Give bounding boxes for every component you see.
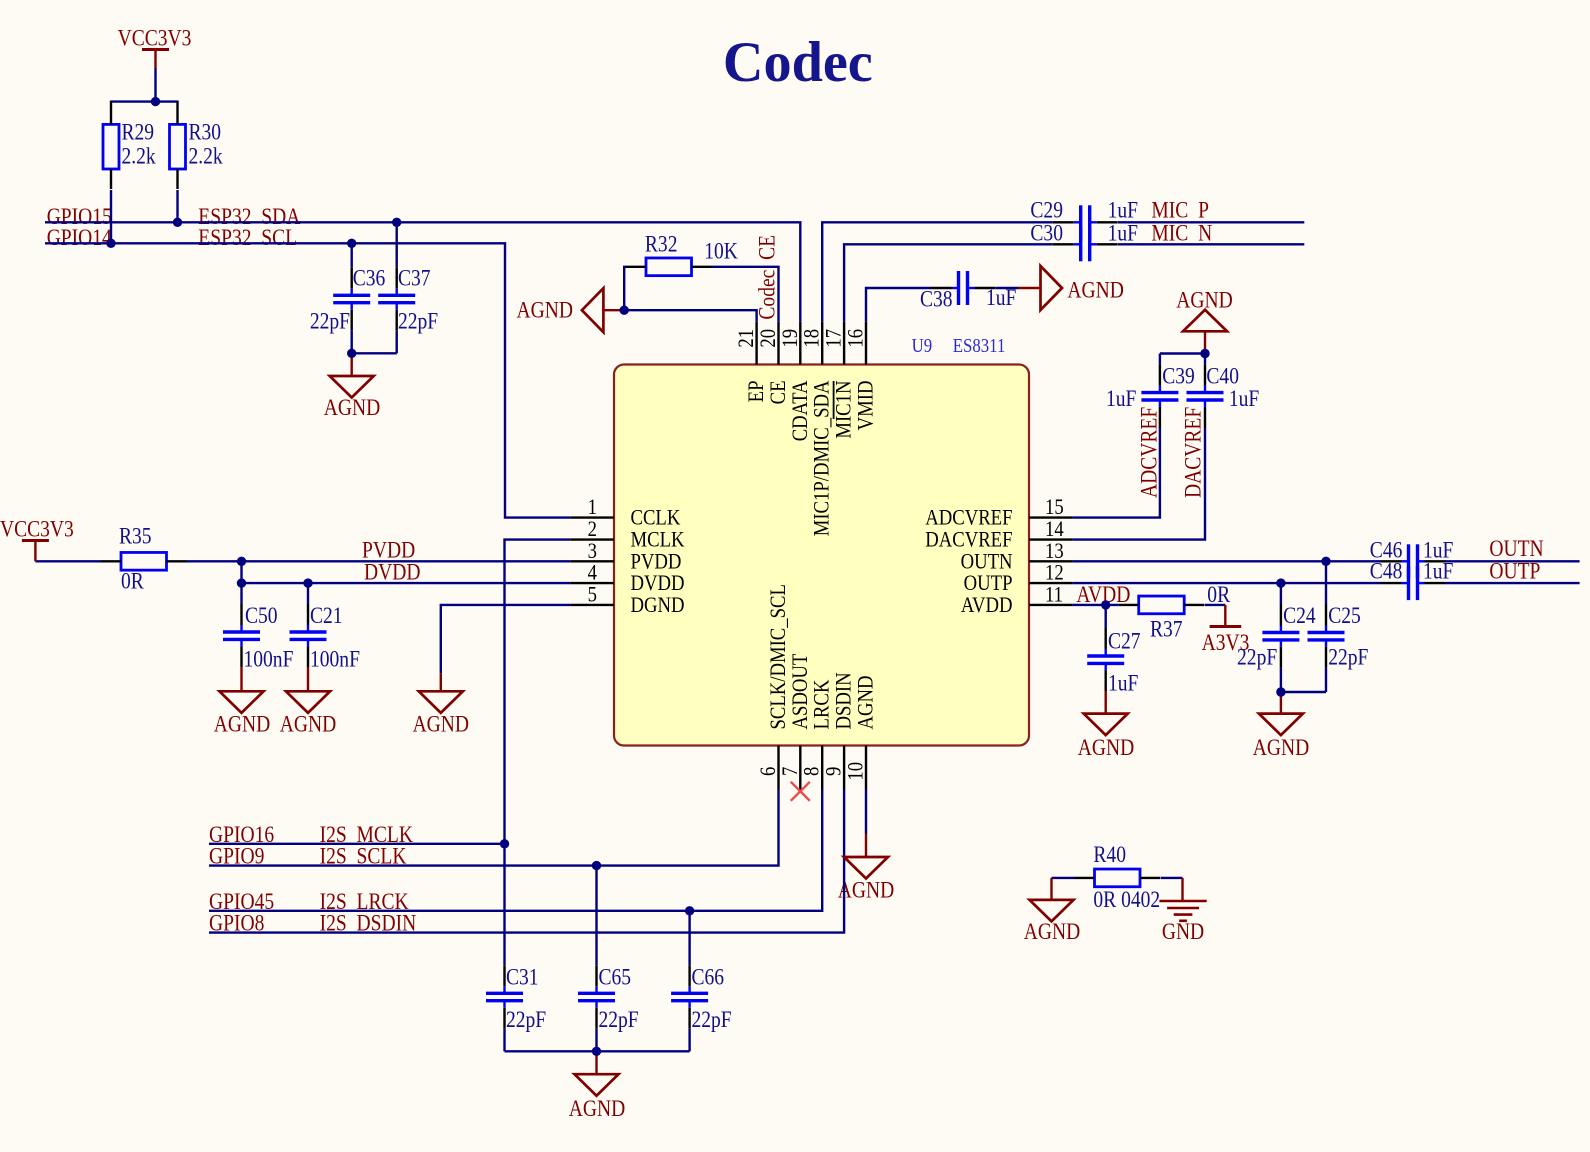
- svg-text:C25: C25: [1328, 603, 1361, 629]
- svg-text:ES8311: ES8311: [953, 335, 1006, 357]
- svg-text:Codec_CE: Codec_CE: [754, 235, 780, 320]
- svg-text:AGND: AGND: [214, 711, 270, 737]
- svg-text:SCLK/DMIC_SCL: SCLK/DMIC_SCL: [767, 584, 791, 729]
- svg-text:1: 1: [588, 496, 597, 520]
- svg-text:15: 15: [1045, 496, 1064, 520]
- svg-text:1uF: 1uF: [1108, 220, 1139, 246]
- svg-text:0R: 0R: [121, 568, 145, 594]
- svg-text:1uF: 1uF: [1108, 670, 1139, 696]
- svg-text:R32: R32: [645, 231, 678, 257]
- svg-text:AGND: AGND: [838, 877, 894, 903]
- svg-text:1uF: 1uF: [1229, 386, 1260, 412]
- svg-text:12: 12: [1045, 561, 1064, 585]
- svg-text:DVDD: DVDD: [631, 572, 685, 596]
- svg-text:9: 9: [822, 767, 846, 776]
- svg-text:R35: R35: [119, 523, 152, 549]
- svg-text:VCC3V3: VCC3V3: [0, 516, 74, 542]
- svg-text:R30: R30: [189, 119, 222, 145]
- svg-text:CCLK: CCLK: [631, 506, 681, 530]
- svg-text:VCC3V3: VCC3V3: [118, 25, 192, 51]
- svg-text:22pF: 22pF: [398, 308, 438, 334]
- svg-text:C36: C36: [353, 265, 386, 291]
- svg-text:3: 3: [588, 539, 597, 563]
- svg-text:Codec: Codec: [723, 30, 873, 94]
- svg-text:22pF: 22pF: [506, 1006, 546, 1032]
- svg-text:2: 2: [588, 518, 597, 542]
- svg-text:AVDD: AVDD: [961, 594, 1013, 618]
- svg-text:GPIO14: GPIO14: [47, 224, 112, 250]
- svg-text:11: 11: [1045, 583, 1063, 607]
- svg-text:ASDOUT: ASDOUT: [788, 653, 812, 729]
- svg-text:OUTP: OUTP: [964, 572, 1013, 596]
- svg-text:CE: CE: [767, 381, 791, 405]
- svg-text:C30: C30: [1030, 220, 1063, 246]
- svg-text:MIC1P/DMIC_SDA: MIC1P/DMIC_SDA: [810, 380, 834, 536]
- svg-text:AGND: AGND: [1078, 735, 1134, 761]
- svg-text:U9: U9: [912, 335, 933, 357]
- svg-text:7: 7: [778, 767, 802, 776]
- svg-text:AGND: AGND: [1253, 735, 1309, 761]
- svg-text:18: 18: [800, 329, 824, 348]
- svg-text:22pF: 22pF: [310, 308, 350, 334]
- svg-text:AGND: AGND: [854, 676, 878, 730]
- svg-text:0R 0402: 0R 0402: [1093, 887, 1160, 913]
- svg-text:A3V3: A3V3: [1202, 630, 1250, 656]
- svg-text:MCLK: MCLK: [631, 528, 685, 552]
- svg-text:2.2k: 2.2k: [189, 143, 223, 169]
- svg-text:10: 10: [844, 762, 868, 781]
- svg-text:C27: C27: [1108, 628, 1141, 654]
- svg-text:C50: C50: [245, 603, 278, 629]
- svg-text:AGND: AGND: [517, 297, 573, 323]
- svg-text:100nF: 100nF: [244, 646, 294, 672]
- svg-text:C21: C21: [310, 603, 343, 629]
- svg-text:AGND: AGND: [1067, 277, 1123, 303]
- svg-text:22pF: 22pF: [599, 1006, 639, 1032]
- svg-text:22pF: 22pF: [1328, 644, 1368, 670]
- svg-text:6: 6: [757, 767, 781, 776]
- svg-text:EP: EP: [745, 381, 769, 403]
- svg-text:ADCVREF: ADCVREF: [1136, 407, 1162, 498]
- svg-text:1uF: 1uF: [1106, 386, 1137, 412]
- svg-text:LRCK: LRCK: [810, 679, 834, 729]
- svg-text:R40: R40: [1093, 841, 1126, 867]
- svg-text:C66: C66: [692, 964, 725, 990]
- svg-text:14: 14: [1045, 518, 1064, 542]
- svg-text:C31: C31: [506, 964, 539, 990]
- svg-text:20: 20: [757, 329, 781, 348]
- svg-text:0R: 0R: [1207, 581, 1231, 607]
- svg-text:ADCVREF: ADCVREF: [925, 506, 1012, 530]
- svg-text:CDATA: CDATA: [788, 380, 812, 441]
- svg-text:DGND: DGND: [631, 594, 685, 618]
- svg-text:22pF: 22pF: [692, 1006, 732, 1032]
- svg-text:DVDD: DVDD: [364, 559, 420, 585]
- svg-text:C39: C39: [1162, 363, 1195, 389]
- svg-text:21: 21: [735, 329, 759, 348]
- svg-text:5: 5: [588, 583, 597, 607]
- svg-text:100nF: 100nF: [310, 646, 360, 672]
- svg-text:C38: C38: [920, 286, 953, 312]
- svg-text:2.2k: 2.2k: [122, 143, 156, 169]
- svg-text:DACVREF: DACVREF: [1180, 407, 1206, 498]
- svg-text:13: 13: [1045, 539, 1064, 563]
- svg-text:16: 16: [844, 329, 868, 348]
- svg-text:MIC1N: MIC1N: [832, 380, 856, 438]
- svg-text:C24: C24: [1283, 603, 1316, 629]
- svg-text:AGND: AGND: [569, 1096, 625, 1122]
- svg-text:C37: C37: [398, 265, 431, 291]
- svg-text:DACVREF: DACVREF: [925, 528, 1012, 552]
- svg-text:GND: GND: [1162, 919, 1204, 945]
- svg-text:R29: R29: [122, 119, 155, 145]
- svg-text:DSDIN: DSDIN: [832, 672, 856, 729]
- svg-text:R37: R37: [1150, 616, 1183, 642]
- svg-text:MIC_N: MIC_N: [1151, 220, 1212, 246]
- svg-text:AGND: AGND: [280, 711, 336, 737]
- svg-text:AGND: AGND: [413, 711, 469, 737]
- svg-text:OUTN: OUTN: [961, 550, 1013, 574]
- svg-text:4: 4: [588, 561, 597, 585]
- svg-text:VMID: VMID: [854, 381, 878, 431]
- svg-text:ESP32_SCL: ESP32_SCL: [198, 224, 297, 250]
- svg-text:8: 8: [800, 767, 824, 776]
- svg-text:10K: 10K: [704, 238, 738, 264]
- svg-text:C65: C65: [599, 964, 632, 990]
- svg-text:17: 17: [822, 329, 846, 348]
- svg-text:PVDD: PVDD: [631, 550, 682, 574]
- svg-text:19: 19: [778, 329, 802, 348]
